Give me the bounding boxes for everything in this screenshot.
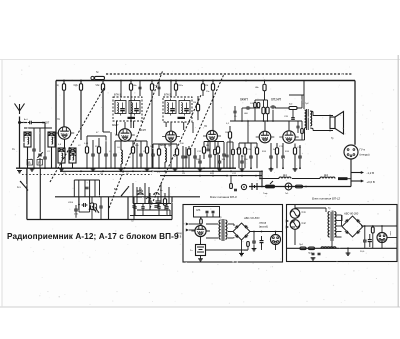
label Tr BP-12 [328, 208, 331, 210]
wire cluster down 6 [99, 180, 101, 197]
capacitor C40 [139, 87, 142, 88]
wire OT primary bottom [304, 128, 306, 140]
junction B+ bus [170, 80, 172, 82]
wire [301, 134, 303, 140]
wire cluster down 2 [78, 180, 80, 210]
wire cluster down 4 [89, 180, 91, 212]
label 6,8 [58, 144, 62, 146]
junction B+ bus [175, 80, 177, 82]
resistor R15 [228, 132, 231, 139]
wire [158, 89, 160, 96]
wire [103, 131, 110, 133]
wire [75, 211, 77, 218]
wire [223, 142, 225, 154]
resistor R11a [175, 149, 178, 156]
resistor R11 [196, 104, 199, 111]
svg-text:6К4П: 6К4П [240, 98, 248, 102]
wire [158, 155, 160, 168]
tube V1 6I1P mixer [55, 127, 74, 139]
label Gn1 [285, 193, 289, 195]
wire [100, 197, 102, 206]
wire [133, 197, 135, 206]
wire [270, 143, 272, 156]
wire winding tap [336, 236, 342, 238]
IF tank 2a [165, 99, 176, 116]
resistor R19 62k [289, 107, 297, 110]
wire [132, 153, 134, 168]
junction [175, 80, 177, 82]
junction [372, 225, 374, 227]
label An1 [24, 118, 28, 121]
resistor 1к5 [150, 84, 153, 91]
wire [212, 90, 214, 130]
wire [133, 207, 135, 219]
capacitor C38 [318, 253, 321, 254]
ground [269, 169, 274, 171]
wire [242, 107, 246, 109]
svg-text:Ч8к: Ч8к [255, 87, 259, 89]
svg-text:6И1П: 6И1П [42, 121, 50, 125]
wire [175, 90, 177, 96]
label R16 [285, 151, 290, 153]
wire [100, 208, 102, 220]
resistor 1М [201, 84, 204, 91]
resistor 220к [174, 84, 177, 91]
resistor R14 [216, 147, 219, 154]
wire [200, 237, 202, 244]
IF tank 1a [115, 99, 126, 116]
ground BP-12 [346, 253, 351, 255]
junction cathode bus [199, 170, 201, 172]
vibrator unit box [194, 207, 220, 218]
dashed tuning gang link 4 [190, 74, 224, 150]
junction [305, 186, 307, 188]
wire [276, 143, 278, 148]
wire [250, 158, 252, 168]
wire [206, 230, 210, 232]
wire [263, 114, 265, 121]
resistor ЧЗк [101, 84, 104, 91]
wire winding tap [336, 214, 342, 216]
dashed chassis line [22, 174, 152, 176]
wire [132, 141, 134, 147]
capacitor C34 electrolytic [260, 236, 264, 248]
coil L4 oscillator [69, 148, 76, 163]
wire [98, 153, 100, 168]
wire [295, 207, 326, 209]
ground antenna [17, 171, 22, 173]
junction cathode bus [241, 170, 243, 172]
wire [182, 158, 184, 168]
resistor R29 [296, 185, 303, 188]
label Sg [96, 70, 99, 74]
label FPCh-2 [164, 94, 172, 97]
junction B+ bus [102, 80, 104, 82]
fuse Pr2 [309, 247, 315, 250]
capacitor cluster c2 [141, 207, 144, 209]
wire [164, 193, 166, 199]
wire [142, 204, 144, 207]
label block BP-9 title [210, 195, 237, 199]
wire [105, 136, 107, 154]
wire cluster v3 [144, 183, 146, 204]
wire trafo to bridge top [228, 223, 234, 225]
wire [292, 110, 294, 118]
ground [198, 169, 203, 171]
label 400 [244, 113, 249, 115]
svg-text:ФПЧ-2: ФПЧ-2 [164, 94, 172, 97]
resistor R10 [157, 149, 160, 156]
label С11 [216, 146, 221, 148]
wire [297, 128, 299, 133]
svg-text:Ч700: Ч700 [68, 202, 74, 204]
junction B- bus [226, 175, 228, 177]
svg-text:Sг: Sг [96, 70, 99, 74]
wire [229, 126, 231, 132]
svg-text:+0,6 В: +0,6 В [367, 180, 375, 184]
label С12 [197, 151, 202, 153]
switch contact arc 3 [146, 198, 151, 199]
tube V3 6K4P IF2 amplifier [162, 131, 180, 142]
wire extra v3 [185, 147, 187, 168]
junction ground bus [146, 167, 148, 169]
wire [381, 226, 383, 233]
junction cluster a [78, 204, 80, 206]
wire [297, 121, 299, 126]
junction B- bus [255, 175, 257, 177]
wire [199, 155, 201, 161]
ground [91, 169, 96, 171]
svg-text:1к: 1к [150, 146, 152, 148]
resistor R37 [301, 129, 304, 134]
wire -1.2V rail [351, 172, 361, 174]
label S4 [12, 149, 16, 151]
svg-text:(гнездо): (гнездо) [360, 153, 370, 157]
wire [202, 90, 204, 96]
potentiometer tone [91, 203, 97, 212]
svg-text:Блок питания БП-12: Блок питания БП-12 [312, 196, 341, 200]
wire [188, 155, 190, 168]
wire [134, 204, 136, 207]
capacitor C vib2 [212, 211, 215, 212]
wire [372, 245, 374, 248]
capacitor C29 [148, 201, 152, 203]
capacitor C36 electrolytic [368, 234, 372, 247]
svg-text:Вч: Вч [160, 190, 163, 192]
junction B+ bus [245, 80, 247, 82]
wire [264, 91, 266, 100]
wire [253, 232, 255, 242]
wire BP-12 bottom rail [287, 247, 398, 249]
wire [158, 81, 160, 88]
junction [63, 80, 65, 82]
connector output BP-12 [377, 233, 387, 243]
resistor R17 [262, 107, 265, 114]
wire [232, 142, 234, 149]
wire [209, 157, 211, 168]
wire [212, 81, 214, 84]
resistor R22 [255, 148, 258, 155]
label Dr1 [283, 175, 288, 177]
wire ground bus [16, 167, 236, 169]
label SL8 [196, 210, 201, 212]
label Др [168, 145, 171, 147]
wire BP-9 bottom rail [206, 249, 249, 251]
wire [241, 155, 243, 161]
wire [75, 205, 77, 209]
svg-text:2ч: 2ч [190, 250, 192, 252]
wire [130, 81, 132, 84]
junction ground bus [114, 167, 116, 169]
wire [292, 178, 320, 180]
junction [151, 80, 153, 82]
wire [175, 81, 177, 84]
wire [347, 248, 349, 253]
battery GB1 [196, 245, 206, 256]
resistor R8 [131, 147, 134, 154]
wire [301, 121, 303, 128]
junction [261, 186, 263, 188]
resistor R26 [163, 199, 166, 206]
wire [244, 143, 246, 148]
wire IF1 out [133, 121, 135, 128]
wire top B+ bus [56, 80, 355, 82]
resistor R13 [202, 147, 205, 154]
wire [142, 208, 144, 215]
capacitor bypass2 [154, 206, 157, 208]
wire det node [204, 141, 224, 143]
wire [341, 215, 343, 221]
wire cluster v1 [132, 183, 134, 204]
junction ground bus [270, 167, 272, 169]
resistor 1к [62, 84, 65, 91]
wire [219, 155, 221, 161]
label FPCh-1 [114, 94, 122, 97]
wire V5 cathode link [295, 139, 305, 141]
junction [102, 80, 104, 82]
wire vib to res [200, 217, 202, 219]
tube V2 6K4P IF amplifier [115, 129, 135, 142]
capacitor C1 antenna [28, 121, 34, 125]
svg-text:68к: 68к [133, 85, 136, 87]
wire cathode bus [60, 170, 262, 172]
wire [151, 81, 153, 84]
label L3 [109, 151, 112, 153]
wire [264, 121, 266, 131]
wire [217, 142, 219, 147]
ground [293, 169, 298, 171]
capacitor C10 [113, 154, 117, 156]
junction ground bus [229, 167, 231, 169]
wire extra v5 [192, 122, 194, 133]
label С9 [143, 151, 147, 153]
svg-text:15к: 15к [206, 91, 209, 93]
wire jack row [249, 186, 351, 188]
wire [130, 96, 132, 128]
wire [105, 156, 107, 168]
svg-text:-1,2 В: -1,2 В [367, 171, 375, 175]
label 0.01b [74, 214, 79, 216]
wire [166, 208, 168, 215]
terminal input ac1 [286, 220, 289, 223]
terminal input ac2 [286, 226, 289, 229]
label Сб [117, 147, 121, 149]
junction cathode bus [102, 170, 104, 172]
label 510 [95, 146, 99, 148]
label -1.2V [367, 171, 375, 175]
ground [173, 169, 178, 171]
inductor L6 [165, 148, 166, 162]
wire bottom bus [27, 219, 172, 221]
junction ground bus [105, 167, 107, 169]
wire trafo bottom to rail [331, 241, 333, 248]
wire cluster v2 [136, 187, 138, 204]
coil L1 input [24, 132, 31, 147]
wire [98, 138, 100, 147]
label tube type 6K4P [112, 123, 118, 127]
capacitor C13b [193, 156, 197, 158]
wire tube V3 cathode down [170, 142, 172, 168]
wire [301, 95, 303, 108]
bridge rectifier VD1-VD4 BP-9 [233, 223, 250, 240]
wire [166, 204, 168, 207]
wire IF2 to B+ [170, 81, 172, 98]
junction rail b [263, 120, 265, 122]
inductor L5 [121, 150, 122, 164]
label С19 [297, 147, 302, 149]
label 10.0 [153, 194, 158, 196]
label gnezdo [360, 153, 370, 157]
wire grid node V2 [87, 135, 106, 137]
capacitor C24 [281, 156, 285, 158]
label block BP-12 title [312, 196, 341, 200]
wire [207, 142, 209, 150]
wire resistor lead [63, 90, 65, 96]
wire V4 cathode node [239, 142, 257, 144]
junction ground bus [44, 167, 46, 169]
wire [194, 158, 196, 168]
wire [209, 142, 211, 156]
wire vertical [127, 197, 129, 220]
label С5 [100, 173, 104, 175]
junction [170, 80, 172, 82]
dashed tuning gang link 1 [50, 88, 104, 182]
wire [364, 247, 366, 248]
label С22 [232, 173, 237, 175]
IF tank 2b [179, 99, 190, 116]
wire [44, 159, 46, 168]
capacitor C17 [208, 155, 212, 157]
label 25 [234, 116, 237, 118]
resistor R31 [247, 242, 250, 247]
wire [230, 176, 232, 184]
label Tlf [263, 192, 268, 195]
ground [217, 169, 222, 171]
label R14 [262, 151, 267, 153]
wire [255, 99, 264, 101]
wire +0.6V rail [351, 180, 361, 182]
wire anode V1 [63, 96, 65, 127]
label Pr1 [299, 244, 304, 246]
capacitor C22 [249, 156, 253, 158]
wire resistor lead [63, 81, 65, 84]
wire [241, 240, 243, 253]
wire [152, 144, 154, 154]
label R20 [210, 173, 215, 175]
wire IF2 gnd [165, 122, 167, 127]
label СДч [74, 85, 79, 87]
wire [214, 142, 216, 150]
wire [78, 197, 80, 212]
resistor R20 [237, 148, 240, 155]
label L3 [204, 126, 207, 128]
capacitor C26 4700 [82, 203, 88, 207]
svg-text:БИ1П: БИ1П [160, 145, 167, 147]
wire [27, 147, 29, 168]
wire vertical [39, 168, 41, 219]
wire tap join [341, 215, 343, 226]
wire extra v2 [136, 143, 138, 168]
label Тр [302, 132, 305, 134]
label Тр2 [305, 103, 309, 105]
capacitor C13a [181, 156, 185, 158]
resistor R24 [293, 148, 296, 155]
wire [61, 163, 63, 168]
wire [294, 205, 296, 209]
label Сб [126, 173, 130, 175]
wire [158, 208, 160, 215]
wire [226, 142, 228, 155]
wire OT primary top [303, 81, 305, 110]
jack Gn2 [241, 184, 246, 189]
capacitor C14 [198, 161, 202, 163]
wire [91, 197, 93, 203]
svg-text:1М: 1М [225, 132, 228, 134]
wire input stub1 [291, 220, 295, 222]
wire [72, 163, 74, 168]
wire B- bus [160, 175, 262, 177]
label 5k1 [273, 149, 277, 151]
junction ground bus [250, 167, 252, 169]
output transformer Tr1 [307, 109, 309, 130]
wire [134, 208, 136, 215]
wire winding tap [336, 231, 342, 233]
label Vch [160, 190, 163, 192]
power block BP-9 outline [183, 205, 283, 263]
junction AF rail [247, 120, 249, 122]
label vyhod [259, 225, 268, 228]
label 62k [289, 104, 292, 106]
resistor 68к [129, 84, 132, 91]
junction rail d [272, 120, 274, 122]
jack Gn1 [285, 183, 292, 190]
junction B- bus [212, 175, 214, 177]
capacitor C2 [32, 149, 36, 151]
resistor R27 [230, 184, 233, 189]
label С20 [284, 116, 289, 118]
IF transformer FPCh-2 (dashed can) [163, 97, 192, 122]
label 1к [57, 85, 59, 87]
junction speaker [329, 130, 331, 132]
wire IF2 out [183, 122, 185, 130]
wire det bus [153, 143, 177, 145]
svg-text:220к: 220к [178, 85, 183, 87]
junction ground bus [158, 167, 160, 169]
wire [372, 233, 374, 245]
dashed AGC line [106, 73, 352, 75]
tube V4 6K4P AF amplifier [256, 131, 275, 143]
wire res to rail [247, 247, 249, 251]
